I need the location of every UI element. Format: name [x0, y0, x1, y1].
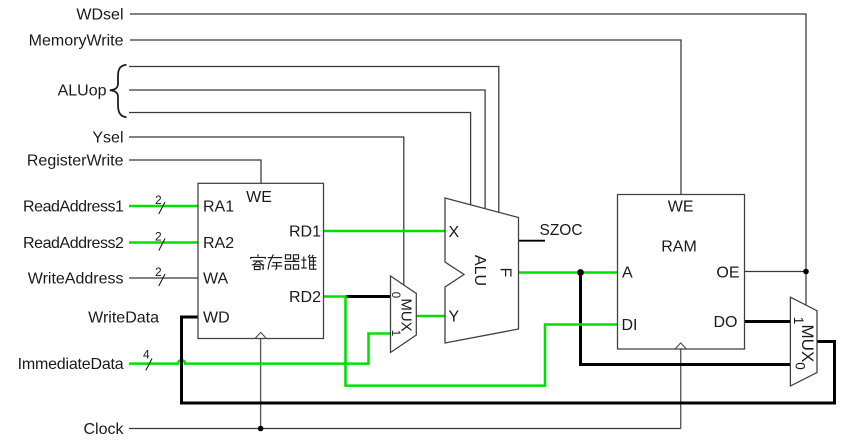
- wire Clock net: [129, 428, 681, 430]
- label RegisterWrite: [27, 153, 124, 170]
- junction dot F node: [577, 269, 584, 276]
- svg-text:0: 0: [389, 292, 401, 298]
- label ReadAddress2: [23, 235, 124, 252]
- pin label RD2: [289, 289, 321, 306]
- wire ALUop bit1: [129, 90, 485, 209]
- regfile name 寄存器堆 hand drawn glyphs: [251, 254, 317, 269]
- MUX2 input1 digit: [791, 317, 806, 325]
- wire ALUop bit2: [129, 113, 471, 206]
- MUX1 input1 digit: [389, 330, 401, 336]
- MUX1 body: [391, 276, 417, 353]
- pin label RA2: [203, 235, 234, 252]
- wire clock stem RAM: [680, 349, 682, 429]
- svg-text:1: 1: [791, 317, 806, 325]
- svg-text:0: 0: [792, 362, 807, 370]
- pin label F rotated: [497, 268, 514, 278]
- wire RD2 to MUX1 input0 thick: [346, 295, 391, 298]
- wire ALUop bit0: [129, 67, 499, 213]
- svg-text:RD1: RD1: [289, 224, 321, 241]
- svg-text:WriteData: WriteData: [88, 310, 159, 327]
- label ImmediateData: [18, 356, 124, 373]
- pin label OE: [716, 265, 739, 282]
- wire RD1 to ALU X green: [324, 230, 446, 233]
- wire F to RAM A green: [519, 271, 618, 274]
- pin label Y: [449, 309, 460, 326]
- pin label WA: [203, 271, 229, 288]
- ALU name rotated: [471, 255, 488, 286]
- svg-text:ReadAddress1: ReadAddress1: [23, 199, 124, 216]
- svg-text:2: 2: [155, 265, 162, 279]
- wire RegisterWrite net: [129, 160, 261, 183]
- pin label X: [449, 224, 460, 241]
- wire ImmediateData green with hop: [129, 334, 391, 364]
- RAM box: [618, 195, 745, 350]
- label ReadAddress1: [23, 199, 124, 216]
- glyph 堆: [301, 255, 316, 270]
- svg-text:WriteAddress: WriteAddress: [28, 271, 124, 288]
- wire RD2 to RAM DI green: [324, 297, 618, 386]
- wire Ysel net: [129, 137, 404, 285]
- label WriteAddress: [28, 271, 124, 288]
- RAM clock triangle: [675, 343, 686, 349]
- wire MemoryWrite net: [130, 40, 681, 195]
- svg-text:SZOC: SZOC: [540, 222, 583, 239]
- svg-text:OE: OE: [716, 265, 739, 282]
- MUX2 body: [790, 297, 817, 386]
- svg-text:MemoryWrite: MemoryWrite: [29, 33, 124, 50]
- svg-text:RAM: RAM: [661, 239, 697, 256]
- junction dot Clock node: [258, 426, 264, 432]
- svg-text:2: 2: [155, 230, 162, 244]
- MUX1 input0 digit: [389, 292, 401, 298]
- svg-text:WE: WE: [246, 189, 272, 206]
- svg-text:MUX: MUX: [798, 325, 817, 363]
- svg-text:4: 4: [143, 348, 150, 362]
- pin label WE RAM: [668, 199, 694, 216]
- label ALUop: [58, 83, 107, 100]
- wire SZOC stub: [519, 240, 546, 242]
- svg-text:ALUop: ALUop: [58, 83, 107, 100]
- MUX2 input0 digit: [792, 362, 807, 370]
- pin label A: [622, 265, 633, 282]
- bus width 4 marker ImmediateData: [143, 348, 152, 371]
- bus width 2 marker ReadAddress2: [155, 230, 165, 251]
- svg-text:WE: WE: [668, 199, 694, 216]
- svg-text:Clock: Clock: [83, 421, 124, 438]
- ALUop brace: [110, 65, 127, 118]
- svg-text:RD2: RD2: [289, 289, 321, 306]
- svg-text:DI: DI: [622, 317, 638, 334]
- svg-text:ReadAddress2: ReadAddress2: [23, 235, 124, 252]
- svg-text:DO: DO: [714, 314, 738, 331]
- wire OE net: [745, 271, 807, 273]
- bus width 2 marker WriteAddress: [155, 265, 165, 286]
- wire DO to MUX2 input1 thick: [745, 320, 791, 323]
- pin label RD1: [289, 224, 321, 241]
- ALU U1 body: [445, 198, 519, 343]
- svg-text:X: X: [449, 224, 460, 241]
- glyph 寄: [251, 254, 265, 269]
- label MemoryWrite: [29, 33, 124, 50]
- svg-text:1: 1: [389, 330, 401, 336]
- svg-text:RegisterWrite: RegisterWrite: [27, 153, 124, 170]
- wire ReadAddress1 green: [129, 205, 198, 208]
- svg-text:Y: Y: [449, 309, 460, 326]
- label WriteData: [88, 310, 159, 327]
- wire WriteAddress net: [129, 277, 198, 279]
- pin label WD: [203, 310, 230, 327]
- svg-text:WDsel: WDsel: [76, 7, 123, 24]
- svg-text:A: A: [622, 265, 633, 282]
- MUX2 name rotated: [798, 325, 817, 363]
- svg-text:Ysel: Ysel: [92, 130, 123, 147]
- register file clock triangle: [255, 332, 266, 338]
- RAM name: [661, 239, 697, 256]
- pin label RA1: [203, 199, 234, 216]
- pin label DI: [622, 317, 638, 334]
- label SZOC: [540, 222, 583, 239]
- label Ysel: [92, 130, 123, 147]
- bus width 2 marker ReadAddress1: [155, 193, 165, 214]
- svg-text:WA: WA: [203, 271, 229, 288]
- pin label WE regfile: [246, 189, 272, 206]
- wire MUX1 out to ALU Y green: [416, 315, 445, 318]
- glyph 存: [268, 254, 282, 269]
- svg-text:ImmediateData: ImmediateData: [18, 356, 124, 373]
- svg-text:2: 2: [155, 193, 162, 207]
- wire WriteData vertical over hop: [180, 351, 183, 377]
- svg-text:RA2: RA2: [203, 235, 234, 252]
- svg-text:RA1: RA1: [203, 199, 234, 216]
- svg-text:ALU: ALU: [471, 255, 488, 286]
- wire WDsel net: [130, 14, 806, 306]
- wire WriteData thick feedback net: [182, 317, 835, 403]
- wire F junction to MUX2 input0 thick: [581, 273, 791, 365]
- wire clock stem regfile: [260, 339, 262, 429]
- pin label DO: [714, 314, 738, 331]
- junction dot WDsel-OE node: [803, 269, 809, 275]
- svg-text:WD: WD: [203, 310, 230, 327]
- svg-text:MUX: MUX: [397, 298, 414, 331]
- glyph 器: [285, 255, 300, 269]
- label Clock: [83, 421, 124, 438]
- wire ReadAddress2 green: [129, 241, 198, 244]
- label WDsel: [76, 7, 123, 24]
- svg-text:F: F: [497, 268, 514, 278]
- MUX1 name rotated: [397, 298, 414, 331]
- register file box: [198, 183, 324, 338]
